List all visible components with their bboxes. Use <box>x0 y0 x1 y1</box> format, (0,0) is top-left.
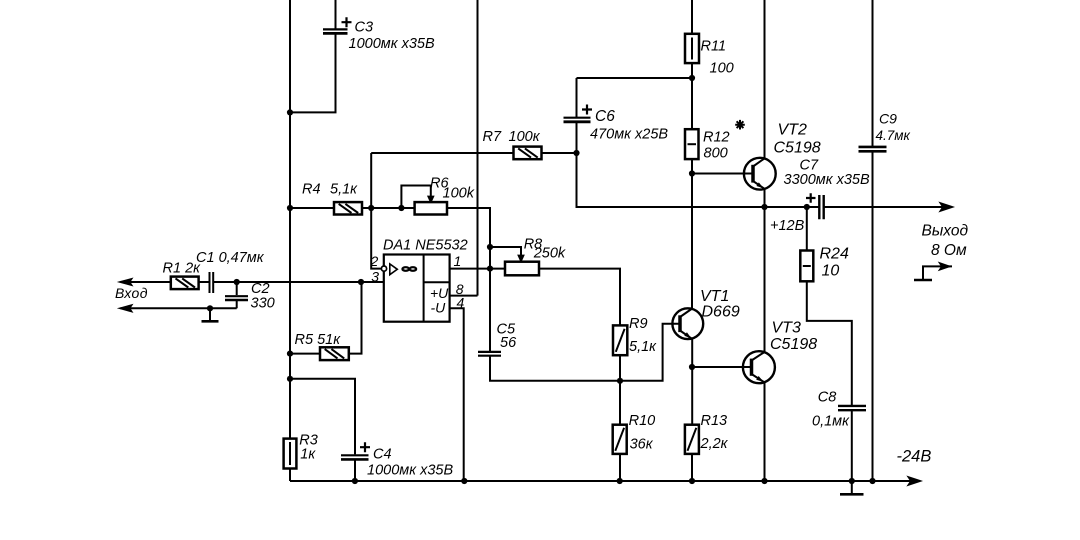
wire R3 top <box>289 379 291 439</box>
node input arrow upper <box>121 279 132 285</box>
svg-text:C5198: C5198 <box>770 336 817 353</box>
svg-text:R11: R11 <box>701 39 727 55</box>
wire bias lower branch to C4 <box>290 379 355 455</box>
wire VT1 emitter down to R13 <box>691 339 693 425</box>
capacitor C5 <box>478 352 501 356</box>
svg-text:100k: 100k <box>443 186 475 202</box>
node junction dot C1/C2 <box>234 279 240 285</box>
capacitor C9 <box>859 147 887 151</box>
svg-text:DA1 NE5532: DA1 NE5532 <box>383 238 468 254</box>
node junction dot pin3/R5 <box>358 279 364 285</box>
wire C3 top stub <box>335 0 337 29</box>
wire VT3 emitter to bottom rail <box>764 382 766 481</box>
node junction dot R7/C6 <box>573 150 579 156</box>
wire output rail right segment C7 to arrow <box>824 206 945 208</box>
svg-text:+12В: +12В <box>770 218 805 234</box>
wire +supply line A x=477.5 down to pin 8 <box>477 0 479 296</box>
wire R12 to VT1 collector <box>691 159 693 308</box>
svg-text:R4: R4 <box>302 182 321 198</box>
resistor R4 <box>334 202 362 214</box>
wire C2 bottom stub <box>236 301 238 308</box>
node junction dot C8/bottom rail <box>849 478 855 484</box>
wire bottom rail <box>290 480 912 482</box>
wire output rail to VT3 collector <box>764 207 766 352</box>
svg-text:800: 800 <box>704 146 728 162</box>
wire pin 4 stub down to rail <box>450 308 464 481</box>
svg-text:-24В: -24В <box>897 448 932 466</box>
node output socket symbol <box>914 263 952 280</box>
node junction dot R11/R12 <box>689 75 695 81</box>
node plus sign C4 <box>360 442 370 452</box>
svg-text:2,2к: 2,2к <box>700 436 729 452</box>
wire R3 bottom <box>289 469 291 482</box>
node output rail arrow <box>941 203 952 210</box>
svg-text:C6: C6 <box>595 108 615 125</box>
wire VT2 collector feed x=764.5 <box>764 0 766 158</box>
wire R7 line from inverting node <box>371 152 513 154</box>
wire R5 left <box>290 353 320 355</box>
resistor R24 <box>800 251 813 282</box>
wire C8 bottom to rail <box>851 410 853 481</box>
resistor R6 potentiometer body <box>415 202 447 214</box>
node junction dot pin1/line B <box>487 266 493 272</box>
node R8 wiper arrow <box>519 256 524 261</box>
resistor R1 <box>171 277 199 290</box>
node junction dot R10/bottom rail <box>617 478 623 484</box>
wire pin 8 stub <box>450 295 478 297</box>
wire C6 bottom then output rail left segment to C7 <box>577 123 820 207</box>
wire R5 right up to pin 3 node <box>349 282 362 354</box>
wire R24 top from rail <box>806 207 808 251</box>
svg-text:4: 4 <box>457 295 465 311</box>
wire R13 to bottom rail <box>691 454 693 481</box>
capacitor C3 <box>323 29 348 33</box>
wire C3 bottom to bias bus <box>290 35 336 113</box>
node junction dot VT3 emitter/bottom rail <box>761 478 767 484</box>
svg-text:R24: R24 <box>820 246 849 263</box>
wire input signal line to pin 3 <box>121 281 172 283</box>
wire R4 right to R6 <box>362 207 415 209</box>
wire C4 bottom to rail <box>354 460 356 481</box>
wire C1 to opamp pin 3 <box>214 281 384 283</box>
wire C9 bottom down to bottom rail <box>872 152 874 481</box>
node R6 wiper arrow <box>429 197 434 202</box>
wire C9 top feed x=872.5 <box>872 0 874 146</box>
resistor R9 <box>613 325 627 355</box>
node junction dot R6 bracket <box>398 205 404 211</box>
node plus sign C3 <box>342 17 352 27</box>
svg-text:D669: D669 <box>702 304 740 321</box>
capacitor C8 <box>838 406 866 410</box>
resistor R11 <box>685 34 699 63</box>
svg-text:VT3: VT3 <box>772 320 801 337</box>
svg-text:250k: 250k <box>533 246 566 262</box>
node junction dot R5/bias <box>287 351 293 357</box>
wire R1 to C1 <box>199 281 210 283</box>
wire R24 bottom to C8 <box>807 281 852 406</box>
wire R7 right to C6 line <box>542 152 577 154</box>
node plus sign C7 <box>806 193 816 203</box>
node junction dot inverting input <box>368 205 374 211</box>
svg-text:36к: 36к <box>630 437 654 453</box>
svg-text:56: 56 <box>500 335 517 351</box>
svg-text:3300мк х35В: 3300мк х35В <box>784 172 870 188</box>
svg-text:C9: C9 <box>879 111 897 127</box>
capacitor C2 <box>225 296 248 300</box>
node junction dot R4/bias <box>287 205 293 211</box>
transistor VT1 <box>672 308 703 339</box>
wire VT3 base from VT1 emitter node <box>692 366 752 368</box>
wire R11 to R12 <box>691 63 693 129</box>
resistor R5 <box>320 347 349 360</box>
node junction dot pin4 line/bottom rail <box>461 478 467 484</box>
capacitor C4 <box>341 455 369 459</box>
wire C6 top stub <box>576 78 578 118</box>
wire C2 top stub <box>236 282 238 295</box>
wire inverting input vertical x=371.2 down to pin 2 <box>371 153 381 269</box>
capacitor C6 <box>564 118 591 122</box>
svg-text:R12: R12 <box>703 130 730 146</box>
capacitor C7 <box>819 195 823 219</box>
svg-text:C4: C4 <box>373 447 392 463</box>
svg-text:R5 51к: R5 51к <box>295 332 342 348</box>
svg-text:Выход: Выход <box>922 223 969 240</box>
node asterisk R12 <box>735 120 745 130</box>
wire input lower line <box>121 307 237 309</box>
svg-text:R10: R10 <box>629 413 656 429</box>
node input arrow lower <box>121 305 132 311</box>
svg-text:R13: R13 <box>701 413 728 429</box>
transistor VT3 <box>743 351 775 383</box>
svg-text:C5198: C5198 <box>774 140 821 157</box>
wire top rail C6 to R11/R12 node <box>577 77 693 79</box>
wire R8 wiper tie <box>490 247 521 256</box>
svg-text:4.7мк: 4.7мк <box>876 128 911 143</box>
resistor R10 <box>613 425 627 454</box>
svg-text:470мк х25В: 470мк х25В <box>590 127 668 143</box>
resistor R7 <box>514 147 542 160</box>
wire R10 to rail <box>619 454 621 481</box>
node junction dot R9/C5 loop <box>617 378 623 384</box>
op-amp U1 DA1 <box>381 255 449 322</box>
svg-text:R1 2к: R1 2к <box>163 261 202 277</box>
svg-text:10: 10 <box>822 263 840 280</box>
node junction dot VT2 emitter/output rail <box>761 204 767 210</box>
wire bias bus vertical x=290 top to bottom rail <box>289 0 291 481</box>
svg-text:VT2: VT2 <box>778 122 807 139</box>
node junction dot R24/output rail <box>804 204 810 210</box>
svg-text:100: 100 <box>710 61 734 77</box>
wire C5 bottom loop to VT1 base <box>490 324 680 381</box>
node junction dot VT1 emitter/VT3 base <box>689 364 695 370</box>
svg-text:0,1мк: 0,1мк <box>812 414 850 430</box>
svg-text:8 Ом: 8 Ом <box>931 242 967 259</box>
svg-text:C1 0,47мк: C1 0,47мк <box>196 250 265 266</box>
svg-text:100к: 100к <box>509 129 541 145</box>
node junction dot R3/C4 branch <box>287 376 293 382</box>
svg-text:+U: +U <box>430 285 449 301</box>
svg-text:330: 330 <box>251 296 275 312</box>
svg-text:VT1: VT1 <box>700 288 729 305</box>
ground at C8/rail <box>840 481 864 494</box>
svg-text:Вход: Вход <box>115 285 148 301</box>
wire R4 left <box>290 207 334 209</box>
node junction dot ground tap <box>207 305 213 311</box>
svg-text:1к: 1к <box>300 447 316 463</box>
capacitor C1 <box>210 272 214 293</box>
node junction dot R13/bottom rail <box>689 478 695 484</box>
ground input <box>202 308 219 321</box>
wire VT2 emitter to output rail <box>764 189 766 207</box>
wire R6 wiper bracket <box>401 186 430 209</box>
transistor VT2 <box>744 158 776 190</box>
svg-text:C8: C8 <box>818 390 837 406</box>
svg-text:5,1к: 5,1к <box>330 182 358 198</box>
svg-text:1000мк х35В: 1000мк х35В <box>367 463 453 479</box>
node bottom rail arrow <box>909 477 920 484</box>
svg-text:5,1к: 5,1к <box>629 339 657 355</box>
resistor R13 <box>685 425 699 454</box>
svg-text:1: 1 <box>454 253 462 269</box>
node junction dot C3/bias <box>287 109 293 115</box>
node junction dot R12/VT2 base <box>689 170 695 176</box>
wire R6 right then down line B to C5 <box>447 208 490 352</box>
svg-text:3: 3 <box>371 269 379 285</box>
wire R8 right then down to R9 <box>539 269 620 326</box>
resistor R12 <box>685 129 699 159</box>
wire VT2 base from R12 node <box>692 173 753 175</box>
node junction dot C4/bottom rail <box>352 478 358 484</box>
svg-text:-U: -U <box>431 300 447 316</box>
wire R9 to R10 <box>619 355 621 425</box>
wire pin 1 output to R8 <box>450 268 505 270</box>
svg-text:R9: R9 <box>629 316 648 332</box>
svg-text:1000мк х35В: 1000мк х35В <box>349 36 435 52</box>
node plus sign C6 <box>582 105 592 115</box>
node junction dot R8 wiper/line B <box>487 244 493 250</box>
wire R11 top feed <box>691 0 693 34</box>
svg-text:R7: R7 <box>483 129 502 145</box>
svg-text:C3: C3 <box>355 20 374 36</box>
svg-text:2: 2 <box>370 253 379 269</box>
resistor R8 potentiometer body <box>505 262 539 276</box>
node junction dot C9 line/bottom rail <box>869 478 875 484</box>
resistor R3 <box>284 439 297 469</box>
